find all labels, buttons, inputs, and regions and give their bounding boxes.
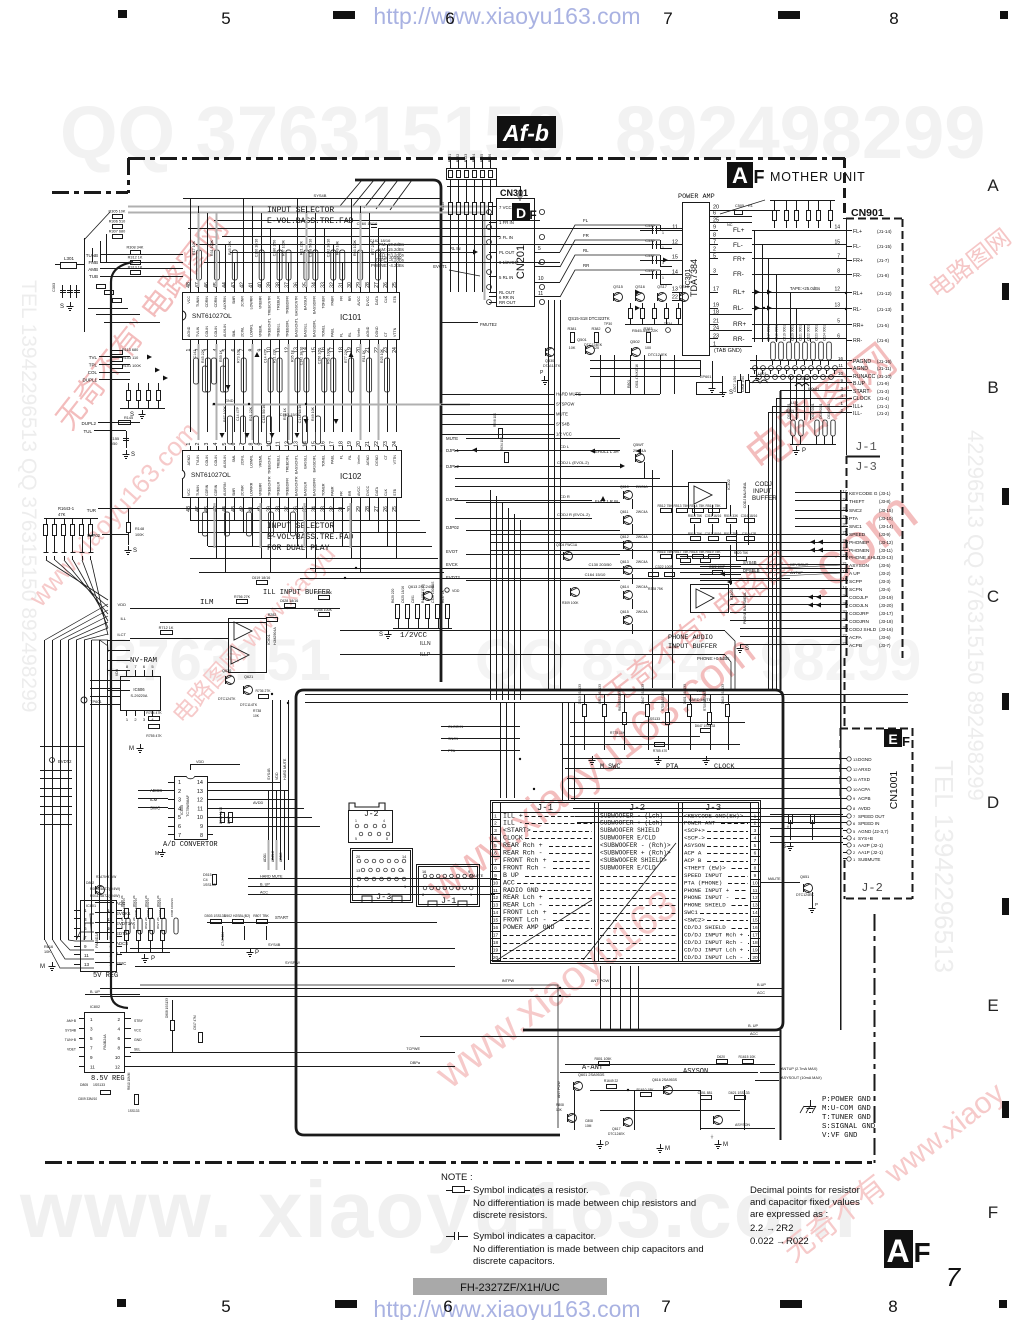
svg-text:COLIN: COLIN	[205, 326, 209, 337]
svg-text:SWC: SWC	[150, 806, 160, 811]
svg-text:C155: C155	[110, 437, 119, 441]
svg-text:TONER: TONER	[321, 296, 325, 309]
svg-text:CLOCK: CLOCK	[714, 763, 735, 771]
svg-text:ACPA: ACPA	[849, 635, 863, 641]
svg-text:S: S	[745, 646, 749, 652]
svg-text:3: 3	[494, 828, 497, 834]
svg-text:11: 11	[838, 363, 843, 368]
capacitor column C517-C524	[771, 342, 776, 360]
svg-text:HARD MUTE: HARD MUTE	[283, 758, 287, 780]
svg-text:IC102: IC102	[340, 472, 362, 481]
svg-text:DATA: DATA	[375, 486, 379, 496]
svg-text:(J3-2): (J3-2)	[879, 571, 891, 576]
svg-text:VDD: VDD	[115, 668, 119, 676]
svg-text:FL: FL	[339, 455, 343, 459]
svg-text:→: →	[776, 1236, 785, 1246]
svg-text:J-2: J-2	[364, 810, 379, 819]
svg-text:10: 10	[267, 441, 273, 447]
svg-text:TPL: TPL	[89, 363, 98, 368]
svg-text:R775 10K: R775 10K	[610, 731, 626, 735]
svg-text:CD/DJ INPUT Lch +: CD/DJ INPUT Lch +	[684, 946, 744, 953]
svg-text:26: 26	[383, 506, 389, 512]
svg-text:C522 0001: C522 0001	[807, 325, 811, 341]
svg-text:(J1-14): (J1-14)	[877, 229, 892, 234]
svg-text:SYS4B: SYS4B	[556, 422, 570, 427]
CODJ arrows	[636, 449, 641, 454]
thick bus diagonal joins	[340, 180, 362, 206]
svg-text:FR-: FR-	[853, 273, 862, 279]
svg-text:F: F	[902, 734, 910, 749]
Q802 parts	[96, 886, 105, 895]
svg-text:44: 44	[222, 506, 228, 512]
svg-text:FRONT Lch -: FRONT Lch -	[503, 917, 547, 924]
svg-text:C521 0001: C521 0001	[799, 325, 803, 341]
wire C124 line	[204, 262, 560, 264]
svg-text:C619 0001: C619 0001	[827, 403, 831, 419]
CN301 right pins	[535, 252, 543, 254]
svg-text:28: 28	[365, 506, 371, 512]
svg-text:TREBDIFR: TREBDIFR	[286, 478, 290, 496]
svg-text:INPUT: INPUT	[753, 488, 772, 495]
svg-text:(J1-13): (J1-13)	[877, 307, 892, 312]
svg-text:IC802: IC802	[90, 1005, 100, 1009]
svg-text:CODJ SHLD: CODJ SHLD	[849, 627, 877, 633]
CODJ input buffer op-amp IC302a	[689, 483, 727, 509]
svg-text:R1649 22: R1649 22	[604, 1079, 618, 1083]
AD signal verticals	[268, 790, 270, 870]
J3 connector rows	[841, 492, 848, 494]
svg-text:R514 75K: R514 75K	[689, 504, 705, 508]
ACC long rail	[100, 996, 783, 998]
svg-text:D503 1SS133: D503 1SS133	[204, 914, 225, 918]
svg-text:AA1P (J2-1): AA1P (J2-1)	[858, 850, 883, 855]
svg-text:R1643-1: R1643-1	[58, 506, 75, 511]
svg-text:SMR: SMR	[232, 296, 236, 304]
svg-text:AUXLIN: AUXLIN	[223, 324, 227, 337]
svg-text:15: 15	[752, 918, 758, 924]
svg-text:(J1-7): (J1-7)	[877, 258, 889, 263]
svg-text:EHOL1 R IN: EHOL1 R IN	[595, 499, 618, 504]
svg-text:No differentiation is made be: No differentiation is made between chip …	[473, 1244, 704, 1255]
svg-text:22: 22	[843, 633, 848, 638]
svg-text:P: P	[605, 1142, 609, 1148]
half vcc parts column	[396, 605, 400, 619]
svg-text:DTC124EK: DTC124EK	[608, 1132, 625, 1136]
svg-text:C142 18/16: C142 18/16	[299, 347, 303, 366]
IC101 SNT61027OL volume IC	[183, 293, 400, 340]
svg-text:14: 14	[107, 908, 113, 913]
svg-text:VDD: VDD	[196, 760, 204, 764]
svg-text:35: 35	[302, 282, 308, 288]
svg-text:CLOCK: CLOCK	[853, 396, 871, 402]
svg-text:10: 10	[115, 1055, 121, 1060]
svg-text:10: 10	[752, 880, 758, 886]
svg-text:TREBLL: TREBLL	[277, 323, 281, 337]
CODJ L EVOL2 line	[455, 466, 592, 468]
svg-text:(J1-8): (J1-8)	[877, 273, 889, 278]
svg-text:R77 22K: R77 22K	[371, 240, 375, 255]
svg-text:RUNACC: RUNACC	[853, 374, 875, 380]
CN301 test point circles	[539, 209, 544, 214]
svg-text:R306 510: R306 510	[109, 220, 125, 224]
svg-text:Q617: Q617	[612, 1127, 621, 1131]
svg-text:<SUBWOOFER + (Rch)>: <SUBWOOFER + (Rch)>	[600, 850, 671, 857]
svg-text:<KEYCODE GND(EW)>: <KEYCODE GND(EW)>	[684, 812, 744, 819]
R754 R755 resistors	[149, 717, 160, 721]
svg-text:28: 28	[843, 538, 848, 543]
svg-text:(J1-5): (J1-5)	[877, 323, 889, 328]
svg-text:C128 50/16: C128 50/16	[262, 405, 266, 424]
svg-text:TAPE:+25.0dBs: TAPE:+25.0dBs	[790, 286, 820, 291]
svg-text:31: 31	[338, 506, 344, 512]
svg-text:R31 100K: R31 100K	[210, 239, 214, 256]
svg-text:14: 14	[402, 855, 406, 859]
svg-text:MOTHER UNIT: MOTHER UNIT	[770, 170, 866, 184]
svg-text:THEFT: THEFT	[849, 499, 865, 505]
svg-text:R755 47K: R755 47K	[146, 734, 162, 738]
svg-text:SUBWOOFER - (Lch): SUBWOOFER - (Lch)	[600, 812, 663, 819]
svg-text:IC605: IC605	[180, 805, 184, 815]
svg-text:2WC4A: 2WC4A	[636, 510, 648, 514]
svg-text:15: 15	[311, 441, 317, 447]
svg-text:FR+: FR+	[733, 256, 746, 263]
svg-text:14: 14	[493, 910, 499, 916]
svg-text:C303: C303	[52, 283, 56, 292]
svg-text:DTA114TK: DTA114TK	[543, 364, 561, 368]
svg-text:1/2VCC: 1/2VCC	[400, 632, 428, 640]
svg-text:HJM2904A: HJM2904A	[273, 627, 277, 645]
svg-text:VCC: VCC	[187, 296, 191, 304]
svg-text:CODJ R (EVOL.2): CODJ R (EVOL.2)	[557, 512, 590, 517]
svg-text:R827 2K: R827 2K	[156, 917, 160, 929]
svg-text:3: 3	[84, 917, 87, 922]
svg-text:SUBMUTE: SUBMUTE	[858, 857, 880, 862]
svg-text:INPUT BUFFER: INPUT BUFFER	[668, 643, 717, 651]
svg-text:(J1-9): (J1-9)	[877, 381, 889, 386]
svg-text:E: E	[888, 731, 897, 747]
svg-text:6: 6	[443, 1297, 452, 1316]
svg-text:2: 2	[109, 962, 112, 967]
svg-text:11: 11	[84, 953, 89, 958]
svg-text:ARXD: ARXD	[858, 767, 871, 772]
svg-text:Q601 2SA953S: Q601 2SA953S	[578, 1073, 605, 1077]
J3 wire stubs left	[795, 492, 841, 494]
svg-text:MUTE: MUTE	[556, 412, 568, 417]
gray net bars mid	[198, 344, 200, 440]
svg-text:QS18: QS18	[679, 285, 689, 289]
svg-text:AUXRIN: AUXRIN	[223, 482, 227, 496]
ILL buffer transistors	[244, 686, 253, 695]
svg-text:TREBCNTR: TREBCNTR	[268, 476, 272, 496]
svg-text:12: 12	[752, 895, 758, 901]
svg-text:1 FR IN: 1 FR IN	[499, 220, 514, 225]
svg-text:DATA: DATA	[375, 295, 379, 305]
IC301 left pins with caps	[672, 230, 683, 232]
svg-text:24: 24	[843, 497, 848, 502]
left vertical x84	[84, 238, 86, 332]
svg-text:17: 17	[843, 489, 848, 494]
svg-text:Vrefin: Vrefin	[357, 455, 361, 464]
svg-text:COLIN: COLIN	[205, 455, 209, 466]
svg-text:C618 0001: C618 0001	[819, 403, 823, 419]
svg-text:(J1-11): (J1-11)	[877, 366, 892, 371]
ANT POW rail	[140, 985, 558, 1128]
svg-text:Q5WT: Q5WT	[633, 443, 645, 447]
svg-text:R49 10K: R49 10K	[335, 240, 339, 255]
bottom margin markers	[117, 1299, 126, 1307]
R712 resistor	[161, 631, 173, 635]
svg-text:RL: RL	[348, 332, 352, 337]
svg-text:LOWRL: LOWRL	[250, 455, 254, 468]
svg-text:A: A	[987, 176, 999, 195]
svg-text:EVDT1A: EVDT1A	[116, 921, 133, 926]
svg-text:F: F	[988, 1203, 998, 1222]
svg-text:AUXLIN: AUXLIN	[223, 455, 227, 468]
svg-text:R63 100K: R63 100K	[326, 347, 330, 364]
svg-text:R705 1SS133: R705 1SS133	[661, 691, 665, 711]
AF logo bottom	[884, 1230, 913, 1268]
svg-text:7: 7	[837, 254, 840, 260]
svg-text:10: 10	[493, 880, 499, 886]
svg-text:1/2 VCC: 1/2 VCC	[556, 432, 572, 437]
svg-text:INPUT SELECTOR: INPUT SELECTOR	[267, 522, 334, 531]
svg-text:PHONE BAL/SMEUL: PHONE BAL/SMEUL	[743, 592, 747, 624]
svg-text:8: 8	[754, 865, 757, 871]
svg-text:FL: FL	[583, 218, 589, 223]
svg-text:TREBLR: TREBLR	[277, 481, 281, 496]
svg-text:A: A	[732, 163, 748, 188]
svg-text:C817 47M: C817 47M	[193, 1015, 197, 1030]
svg-text:TONEL: TONEL	[321, 455, 325, 467]
svg-text:21: 21	[843, 561, 848, 566]
svg-text:C505: C505	[735, 204, 744, 208]
svg-text:FMB: FMB	[89, 260, 99, 265]
svg-text:M SWC: M SWC	[600, 763, 620, 771]
svg-text:BASSLL: BASSLL	[303, 323, 307, 337]
svg-text:FL+: FL+	[853, 229, 862, 235]
svg-text:1: 1	[494, 813, 497, 819]
heavy left net vertical	[111, 262, 133, 1008]
svg-text:R101 100K: R101 100K	[122, 364, 141, 368]
mute transistor row QS15-QS18	[614, 293, 623, 302]
svg-text:2CINL: 2CINL	[241, 327, 245, 337]
svg-text:J-1: J-1	[537, 803, 553, 813]
svg-text:ACPA: ACPA	[858, 787, 871, 792]
CN301 left test circles	[487, 210, 492, 215]
svg-text:TCPWE: TCPWE	[406, 1047, 420, 1051]
svg-text:(J1-1): (J1-1)	[877, 404, 889, 409]
svg-text:R512 75K: R512 75K	[657, 504, 673, 508]
svg-text:GND: GND	[225, 399, 234, 403]
svg-text:S: S	[60, 304, 64, 310]
svg-text:13: 13	[834, 303, 840, 309]
svg-text:10K: 10K	[569, 346, 576, 350]
svg-text:18: 18	[843, 585, 848, 590]
svg-text:(J3-17): (J3-17)	[879, 611, 893, 616]
svg-text:P: P	[151, 956, 155, 962]
svg-text:C520 0001: C520 0001	[791, 325, 795, 341]
ground legend symbol	[810, 1100, 812, 1106]
R320 75K part	[737, 557, 747, 561]
svg-text:AGND: AGND	[187, 455, 191, 466]
svg-text:ACPB: ACPB	[849, 643, 862, 649]
svg-text:R785 470: R785 470	[653, 749, 667, 753]
svg-text:6: 6	[117, 1036, 120, 1041]
svg-text:TC75W58AF: TC75W58AF	[186, 794, 190, 817]
wire stubs from CN1001 to J2 pins	[770, 814, 843, 816]
svg-text:TP34: TP34	[664, 322, 672, 326]
hard mute rows	[248, 878, 495, 880]
svg-text:C517 0001: C517 0001	[767, 325, 771, 341]
left signal stubs	[40, 770, 72, 772]
cap column C615	[791, 420, 795, 436]
svg-text:IC302: IC302	[726, 479, 731, 490]
svg-text:9: 9	[84, 944, 87, 949]
svg-text:⏚: ⏚	[710, 1133, 714, 1139]
svg-text:Q304 FWC1A: Q304 FWC1A	[556, 543, 578, 547]
top resistor header connector	[447, 169, 497, 180]
svg-text:43: 43	[231, 282, 237, 288]
svg-text:R35 1K: R35 1K	[283, 407, 287, 420]
svg-text:SPEED: SPEED	[849, 532, 866, 538]
svg-text:Q501: Q501	[577, 337, 588, 342]
svg-text:S: S	[379, 632, 383, 638]
svg-text:AMB: AMB	[88, 267, 98, 272]
svg-text:R113 680: R113 680	[122, 348, 138, 352]
svg-text:D: D	[516, 205, 526, 221]
svg-text:11: 11	[90, 1065, 95, 1070]
svg-text:FRONT Rch -: FRONT Rch -	[503, 864, 547, 871]
svg-text:R512 75K: R512 75K	[688, 532, 703, 536]
ILL buffer op-amp IC601	[229, 619, 267, 673]
svg-text:RL-: RL-	[853, 307, 862, 313]
vertical bundle right of thick bus	[548, 300, 550, 690]
dashed unit border top-left step	[127, 158, 130, 193]
svg-text:EVOT1: EVOT1	[433, 264, 447, 269]
svg-text:IC601: IC601	[266, 634, 271, 645]
A/D right wires	[213, 782, 280, 784]
svg-text:R383: R383	[643, 327, 652, 331]
model number bar	[413, 1278, 607, 1295]
5V reg part grid	[125, 909, 129, 919]
svg-text:NOTE :: NOTE :	[441, 1172, 473, 1183]
wires top right fan	[720, 200, 765, 214]
table column dividers	[500, 802, 502, 961]
IC301 TDA7384	[683, 203, 710, 356]
DBPa rail	[130, 1066, 455, 1068]
svg-text:7: 7	[178, 833, 181, 839]
svg-text:R015 487Z(1/4W): R015 487Z(1/4W)	[90, 887, 121, 891]
svg-text:B: B	[987, 378, 998, 397]
svg-text:P: P	[255, 950, 259, 956]
svg-text:B. UP: B. UP	[90, 990, 100, 994]
svg-text:18: 18	[338, 441, 344, 447]
svg-text:COLIN: COLIN	[214, 326, 218, 337]
svg-text:5: 5	[713, 254, 716, 260]
svg-text:EVDT2: EVDT2	[446, 575, 460, 580]
bias resistors row	[571, 333, 575, 343]
svg-text:R629 220: R629 220	[391, 589, 395, 603]
svg-text:C142 18/16: C142 18/16	[326, 239, 330, 258]
svg-text:15: 15	[672, 255, 678, 261]
svg-text:28: 28	[365, 282, 371, 288]
svg-text:HARD MUTE: HARD MUTE	[689, 698, 712, 702]
svg-text:1/50: 1/50	[110, 442, 117, 446]
dashed border CN901 box	[846, 218, 903, 220]
svg-text:6: 6	[713, 211, 716, 217]
dashed unit border bottom	[45, 1161, 874, 1164]
svg-text:R524: R524	[472, 154, 476, 162]
svg-text:B. UP: B. UP	[260, 883, 270, 887]
ground M bottom left	[52, 962, 54, 966]
svg-text:POWER ANT: POWER ANT	[684, 820, 716, 827]
svg-text:BASSLR: BASSLR	[303, 481, 307, 496]
svg-text:PABR: PABR	[330, 486, 334, 496]
svg-text:PHONEN: PHONEN	[849, 548, 870, 554]
svg-text:S: S	[729, 390, 733, 396]
note resistor symbol	[446, 1190, 452, 1192]
svg-text:39: 39	[267, 282, 273, 288]
svg-text:POWER AMP GND: POWER AMP GND	[503, 924, 554, 931]
svg-text:CLK: CLK	[384, 295, 388, 303]
svg-text:2WC4A: 2WC4A	[636, 535, 648, 539]
svg-text:EVCK: EVCK	[446, 562, 458, 567]
A-ANT resistors	[599, 1062, 610, 1066]
svg-text:892498299: 892498299	[615, 91, 985, 174]
svg-text:1: 1	[178, 780, 181, 786]
PTA R785 wires	[560, 744, 740, 746]
svg-text:R11 1K: R11 1K	[362, 350, 366, 362]
wires CN301 to IC301	[543, 252, 560, 254]
svg-text:41: 41	[249, 506, 255, 512]
START CLOCK ILL staircase	[780, 390, 846, 392]
svg-text:R17 10K: R17 10K	[192, 240, 196, 255]
svg-text:R826 2K: R826 2K	[144, 917, 148, 929]
C130 C164 lines right	[310, 568, 853, 570]
svg-text:Q614: Q614	[620, 585, 629, 589]
svg-text:D515: D515	[203, 873, 212, 877]
svg-text:6: 6	[178, 824, 181, 830]
dashed unit border right upper	[843, 158, 846, 219]
svg-text:R305 10K: R305 10K	[109, 210, 126, 214]
svg-text:23: 23	[383, 441, 389, 447]
SYSPW rail	[135, 966, 455, 968]
svg-text:CD/DJ INPUT Lch -: CD/DJ INPUT Lch -	[684, 954, 743, 961]
svg-text:TREBCNTL: TREBCNTL	[268, 318, 272, 337]
svg-text:SUBWOOFER E/CLD: SUBWOOFER E/CLD	[600, 835, 656, 842]
svg-text:3: 3	[713, 269, 716, 275]
svg-text:14: 14	[672, 270, 678, 276]
svg-text:TUR: TUR	[87, 508, 97, 513]
IC101 top wiring verticals	[190, 199, 192, 287]
svg-text:AM+B: AM+B	[67, 1019, 77, 1023]
svg-text:27: 27	[843, 546, 848, 551]
svg-text:41: 41	[249, 282, 255, 288]
A-ANT transistors	[574, 1082, 583, 1091]
pullup to vcc	[496, 179, 498, 186]
svg-text:R381: R381	[567, 327, 576, 331]
svg-text:5: 5	[178, 815, 181, 821]
svg-text:R59 1K: R59 1K	[219, 349, 223, 362]
svg-text:(J3-12): (J3-12)	[879, 540, 893, 545]
svg-text:Q651: Q651	[800, 875, 809, 879]
svg-text:D808 1SS133: D808 1SS133	[165, 998, 169, 1018]
svg-text:VTTN: VTTN	[393, 327, 397, 337]
svg-text:R808: R808	[556, 1103, 564, 1107]
svg-text:13: 13	[293, 441, 299, 447]
svg-text:C523 0001: C523 0001	[815, 325, 819, 341]
svg-text:R87 100K: R87 100K	[223, 405, 227, 422]
